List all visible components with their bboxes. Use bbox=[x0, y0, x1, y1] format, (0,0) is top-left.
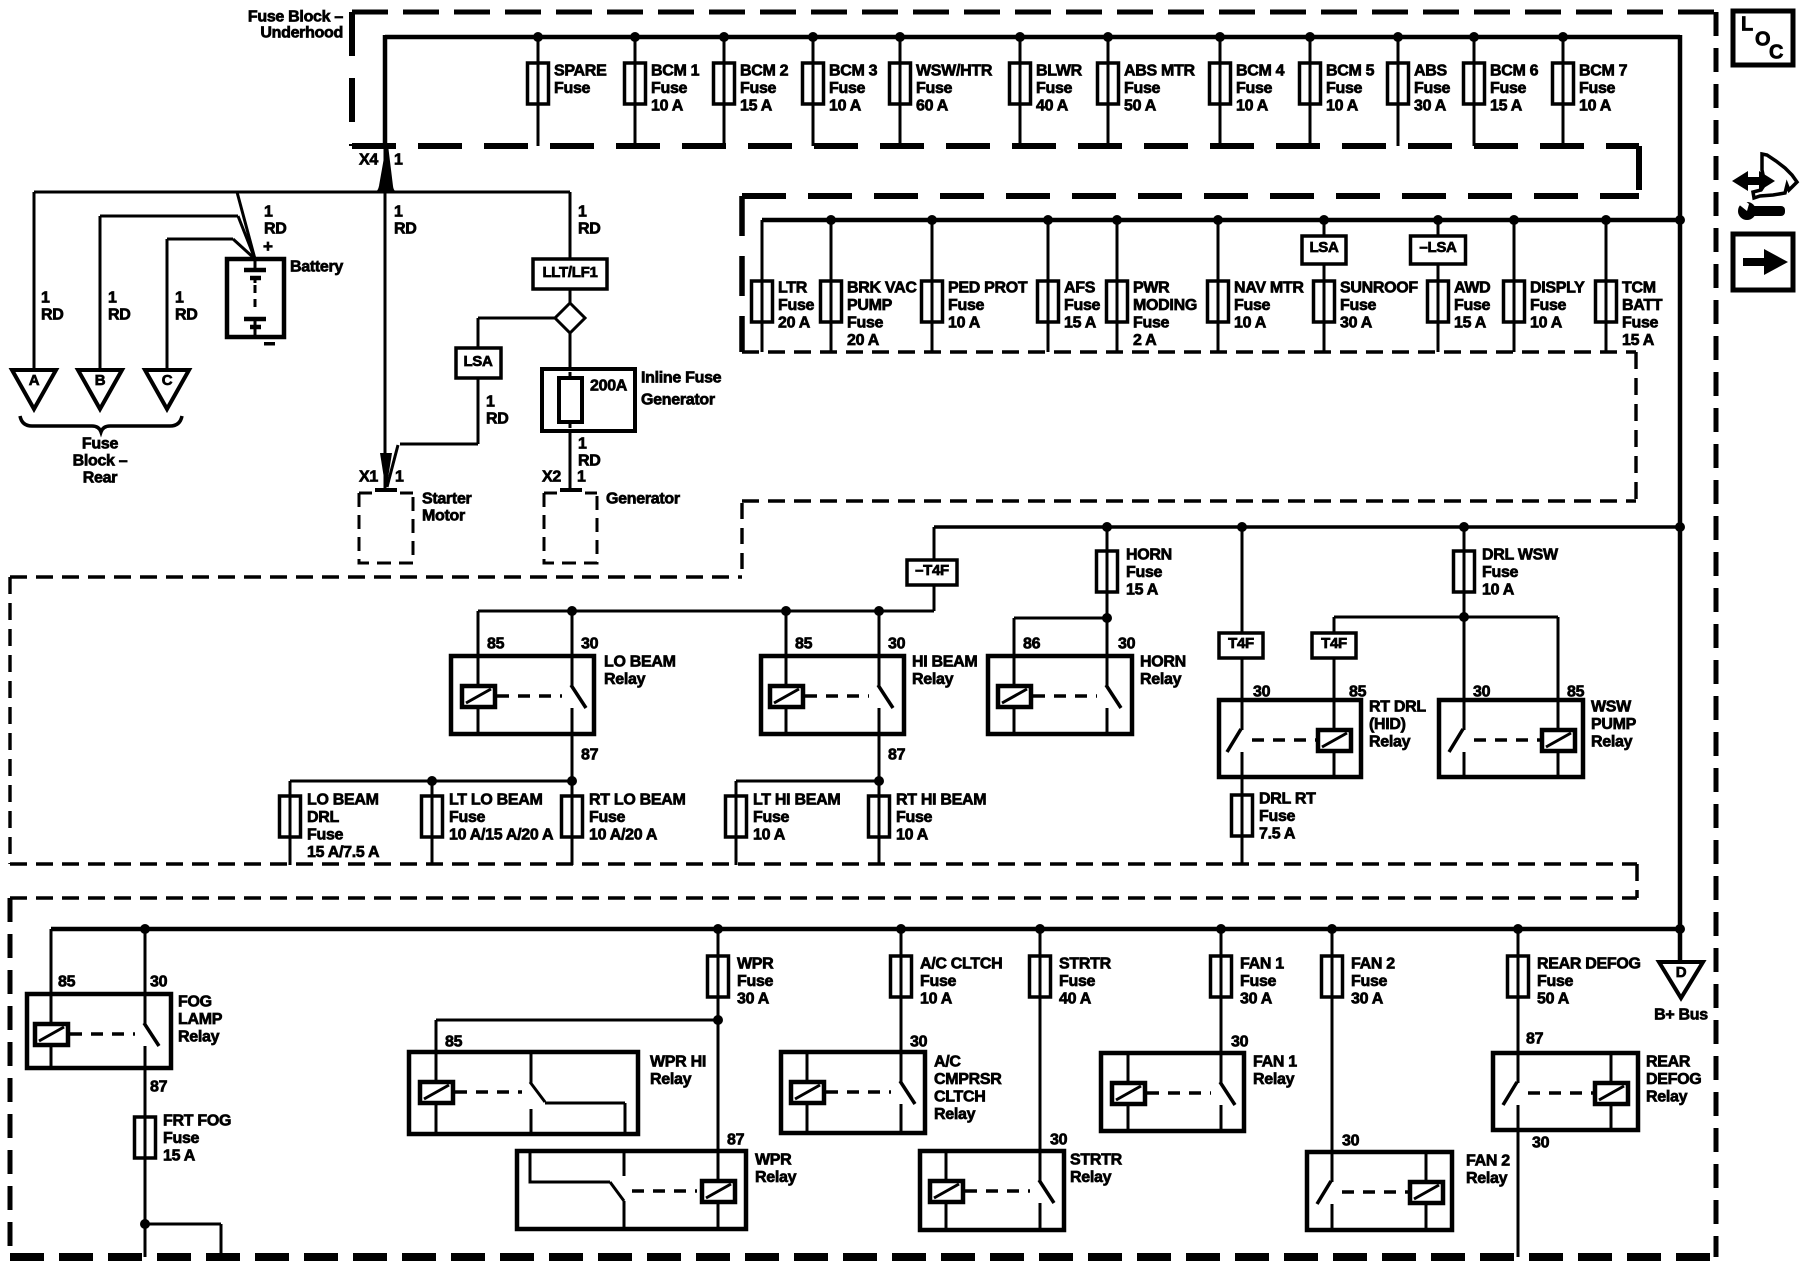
svg-text:L: L bbox=[1741, 13, 1753, 35]
fuse DRL RT bbox=[1232, 791, 1317, 866]
svg-text:DRL: DRL bbox=[307, 809, 340, 826]
svg-text:10 A/15 A/20 A: 10 A/15 A/20 A bbox=[449, 827, 554, 844]
relay A/C CMPRSR CLTCH bbox=[781, 1052, 1002, 1133]
svg-text:Fuse: Fuse bbox=[1414, 80, 1451, 97]
svg-text:15 A/7.5 A: 15 A/7.5 A bbox=[307, 844, 380, 861]
svg-text:B: B bbox=[95, 372, 106, 389]
svg-text:15 A: 15 A bbox=[1064, 315, 1097, 332]
svg-text:85: 85 bbox=[795, 636, 813, 653]
svg-text:ABS MTR: ABS MTR bbox=[1124, 63, 1196, 80]
svg-text:FRT FOG: FRT FOG bbox=[163, 1113, 231, 1130]
svg-text:87: 87 bbox=[150, 1079, 168, 1096]
wire drl/wsw branch horizontal bbox=[1334, 616, 1558, 619]
svg-text:Generator: Generator bbox=[606, 491, 680, 508]
svg-text:30 A: 30 A bbox=[1240, 991, 1273, 1008]
svg-text:Relay: Relay bbox=[178, 1029, 220, 1046]
svg-text:RT DRL: RT DRL bbox=[1369, 699, 1426, 716]
svg-text:X2: X2 bbox=[542, 469, 561, 486]
svg-text:RD: RD bbox=[264, 221, 287, 238]
off-page triangle B bbox=[78, 370, 122, 409]
svg-text:AWD: AWD bbox=[1454, 280, 1490, 297]
splice -T4F bbox=[907, 560, 957, 585]
svg-text:C: C bbox=[1769, 41, 1783, 63]
svg-text:BCM 3: BCM 3 bbox=[829, 63, 878, 80]
wire branch slant y192 to battery positive bbox=[237, 192, 255, 259]
relay RT DRL (HID) bbox=[1219, 699, 1426, 778]
svg-text:87: 87 bbox=[727, 1132, 745, 1149]
fuse ABS MTR (top row) bbox=[1098, 32, 1196, 146]
wire HI BEAM pin85 drop bbox=[785, 611, 788, 656]
fuse DRL WSW bbox=[1454, 522, 1560, 617]
svg-text:10 A: 10 A bbox=[1579, 98, 1612, 115]
wire horn relay pin86 branch bbox=[1014, 617, 1107, 620]
wire inline fuse to X2 bbox=[569, 431, 572, 489]
svg-text:Block –: Block – bbox=[73, 453, 128, 470]
svg-text:WPR HI: WPR HI bbox=[650, 1054, 706, 1071]
svg-text:Fuse: Fuse bbox=[554, 80, 591, 97]
fuse RT HI BEAM bbox=[869, 792, 987, 866]
svg-text:Relay: Relay bbox=[604, 671, 646, 688]
svg-text:Fuse: Fuse bbox=[651, 80, 688, 97]
wire RT DRL output to DRL RT fuse bbox=[1241, 777, 1244, 795]
wire B drop bbox=[99, 216, 102, 370]
wire WSW pump pin85 drop bbox=[1557, 617, 1560, 700]
svg-text:RD: RD bbox=[578, 221, 601, 238]
off-page triangle A bbox=[12, 370, 56, 409]
wire FOG LAMP pin30 drop bbox=[144, 929, 147, 994]
svg-text:AFS: AFS bbox=[1064, 280, 1096, 297]
svg-text:LT HI BEAM: LT HI BEAM bbox=[753, 792, 840, 809]
svg-text:+: + bbox=[263, 237, 273, 256]
fuse HORN bbox=[1097, 522, 1172, 618]
svg-text:DEFOG: DEFOG bbox=[1646, 1071, 1701, 1088]
wire LLT/LF1 feed drop bbox=[569, 192, 572, 259]
svg-text:10 A: 10 A bbox=[753, 827, 786, 844]
wire REAR DEFOG output down bbox=[1517, 1130, 1520, 1257]
wire bus1 right drop to bus2 (B+ trunk upper) bbox=[1678, 35, 1683, 220]
dashed connector between relay section and bottom section bbox=[1635, 864, 1639, 898]
svg-text:1: 1 bbox=[175, 290, 184, 307]
relay WPR HI bbox=[409, 1052, 706, 1134]
wire HI BEAM pin87 to hi beam fuses bbox=[878, 734, 881, 796]
svg-text:BCM 7: BCM 7 bbox=[1579, 63, 1628, 80]
svg-text:BCM 4: BCM 4 bbox=[1236, 63, 1285, 80]
fuse BCM 1 (top row) bbox=[625, 32, 700, 146]
wire WPR fuse to WPR relay bbox=[717, 997, 720, 1151]
wire diamond to LSA splice bbox=[478, 317, 556, 320]
svg-text:Fuse: Fuse bbox=[1537, 973, 1574, 990]
connector X2 bbox=[542, 469, 586, 491]
wire B+ trunk right side bbox=[1678, 220, 1683, 962]
fuse BLWR (top row) bbox=[1010, 32, 1083, 146]
fuse STRTR bbox=[1030, 924, 1112, 1008]
svg-text:WSW: WSW bbox=[1591, 699, 1632, 716]
svg-text:Generator: Generator bbox=[641, 392, 715, 409]
svg-text:Relay: Relay bbox=[755, 1169, 797, 1186]
svg-text:Fuse: Fuse bbox=[1133, 315, 1170, 332]
svg-text:A/C CLTCH: A/C CLTCH bbox=[920, 956, 1002, 973]
svg-text:Relay: Relay bbox=[650, 1071, 692, 1088]
fuse WSW/HTR (top row) bbox=[890, 32, 993, 146]
svg-text:REAR DEFOG: REAR DEFOG bbox=[1537, 956, 1641, 973]
wire FOG LAMP pin85 feed bbox=[50, 929, 53, 994]
svg-text:1: 1 bbox=[41, 290, 50, 307]
svg-text:10 A: 10 A bbox=[920, 991, 953, 1008]
second fuse box dashed bottom edge bbox=[742, 350, 1636, 353]
svg-text:DRL WSW: DRL WSW bbox=[1482, 547, 1559, 564]
fuse BCM 2 (top row) bbox=[714, 32, 789, 146]
svg-text:15 A: 15 A bbox=[163, 1148, 196, 1165]
fuse SPARE (top row) bbox=[528, 32, 608, 146]
svg-text:BATT: BATT bbox=[1622, 297, 1663, 314]
svg-text:B+ Bus: B+ Bus bbox=[1654, 1007, 1708, 1024]
second fuse box dashed left edge bbox=[739, 196, 745, 352]
svg-text:Relay: Relay bbox=[1253, 1071, 1295, 1088]
fuse ABS (top row) bbox=[1388, 32, 1451, 146]
svg-text:15 A: 15 A bbox=[1454, 315, 1487, 332]
svg-text:15 A: 15 A bbox=[740, 98, 773, 115]
junction dot bus3 at trunk bbox=[1675, 522, 1685, 532]
fuse TCM (second row) bbox=[1596, 215, 1663, 352]
svg-text:DRL RT: DRL RT bbox=[1259, 791, 1316, 808]
fuse REAR DEFOG bbox=[1508, 924, 1641, 1008]
svg-text:10 A: 10 A bbox=[651, 98, 684, 115]
wire FAN1 fuse to relay bbox=[1220, 997, 1223, 1053]
svg-text:LO BEAM: LO BEAM bbox=[307, 792, 379, 809]
svg-text:Battery: Battery bbox=[290, 259, 343, 276]
B+ Bus off-page triangle D bbox=[1654, 962, 1708, 1024]
svg-text:Fuse: Fuse bbox=[829, 80, 866, 97]
relay HORN bbox=[988, 654, 1186, 735]
svg-text:30: 30 bbox=[888, 636, 906, 653]
svg-text:BCM 1: BCM 1 bbox=[651, 63, 700, 80]
fuse BCM 6 (top row) bbox=[1464, 32, 1539, 146]
fuse block underhood dashed border top edge bbox=[352, 10, 1714, 15]
svg-text:1: 1 bbox=[578, 204, 587, 221]
wire -T4F down and left to beam relays bbox=[933, 585, 936, 611]
fuse PED PROT (second row) bbox=[922, 215, 1028, 352]
wire T4F2 to RT DRL pin85 bbox=[1333, 658, 1336, 700]
relay section dashed bottom edge bbox=[10, 862, 1637, 866]
svg-text:Fuse: Fuse bbox=[753, 809, 790, 826]
svg-text:Fuse: Fuse bbox=[1236, 80, 1273, 97]
relay HI BEAM bbox=[761, 654, 977, 735]
svg-text:20 A: 20 A bbox=[778, 315, 811, 332]
svg-text:SPARE: SPARE bbox=[554, 63, 607, 80]
page dashed border right edge bbox=[1714, 12, 1719, 1257]
svg-text:15 A: 15 A bbox=[1490, 98, 1523, 115]
splice LSA (generator branch) bbox=[456, 348, 501, 378]
fuse BCM 4 (top row) bbox=[1210, 32, 1285, 146]
wire STRTR fuse to relay bbox=[1039, 997, 1042, 1151]
wire LT LO BEAM fuse drop bbox=[431, 781, 434, 796]
wire HI BEAM pin30 drop bbox=[878, 611, 881, 656]
battery bbox=[227, 237, 343, 345]
wire T4F1 to RT DRL pin30 bbox=[1241, 658, 1244, 700]
svg-text:Fuse: Fuse bbox=[737, 973, 774, 990]
connector X1 with down arrow bbox=[359, 453, 404, 491]
svg-text:Fuse: Fuse bbox=[1064, 297, 1101, 314]
svg-text:10 A: 10 A bbox=[1530, 315, 1563, 332]
svg-text:FAN 2: FAN 2 bbox=[1466, 1153, 1510, 1170]
svg-text:10 A: 10 A bbox=[1234, 315, 1267, 332]
svg-text:30: 30 bbox=[150, 974, 168, 991]
svg-text:LSA: LSA bbox=[1309, 239, 1339, 256]
svg-text:PED PROT: PED PROT bbox=[948, 280, 1028, 297]
svg-text:–LSA: –LSA bbox=[1419, 239, 1457, 256]
svg-text:87: 87 bbox=[888, 747, 906, 764]
svg-text:10 A: 10 A bbox=[896, 827, 929, 844]
svg-text:30: 30 bbox=[1532, 1135, 1550, 1152]
svg-text:30 A: 30 A bbox=[1351, 991, 1384, 1008]
svg-text:RD: RD bbox=[175, 307, 198, 324]
svg-text:Fuse: Fuse bbox=[948, 297, 985, 314]
wire frt fog branch stub bbox=[145, 1223, 221, 1226]
svg-text:Fuse: Fuse bbox=[896, 809, 933, 826]
off-page triangle C bbox=[145, 370, 189, 409]
wire FRT FOG fuse output bbox=[144, 1158, 147, 1257]
svg-text:Motor: Motor bbox=[422, 508, 465, 525]
svg-text:87: 87 bbox=[581, 747, 599, 764]
svg-text:15 A: 15 A bbox=[1126, 582, 1159, 599]
svg-text:O: O bbox=[1755, 28, 1770, 50]
svg-text:PUMP: PUMP bbox=[847, 297, 893, 314]
wire WPR HI pin85 branch bbox=[436, 1019, 718, 1022]
svg-text:30: 30 bbox=[1342, 1133, 1360, 1150]
wire diamond to inline fuse bbox=[569, 333, 572, 371]
svg-text:ABS: ABS bbox=[1414, 63, 1448, 80]
svg-text:BCM 2: BCM 2 bbox=[740, 63, 789, 80]
svg-text:1: 1 bbox=[395, 469, 404, 486]
dashed left edge segment below second fuse box bbox=[740, 503, 743, 577]
svg-text:PWR: PWR bbox=[1133, 280, 1170, 297]
svg-text:LAMP: LAMP bbox=[178, 1011, 223, 1028]
svg-text:Relay: Relay bbox=[1369, 734, 1411, 751]
svg-text:1: 1 bbox=[394, 204, 403, 221]
svg-text:85: 85 bbox=[487, 636, 505, 653]
starter motor connector box bbox=[359, 490, 472, 563]
svg-text:LTR: LTR bbox=[778, 280, 808, 297]
svg-text:1: 1 bbox=[108, 290, 117, 307]
svg-text:HORN: HORN bbox=[1140, 654, 1186, 671]
junction diamond bbox=[555, 303, 585, 333]
bus B1 underhood fuse bus bbox=[385, 35, 1680, 40]
svg-text:Fuse: Fuse bbox=[1259, 808, 1296, 825]
fuse A/C CLTCH bbox=[891, 924, 1003, 1008]
relay WSW PUMP bbox=[1439, 699, 1637, 778]
fuse SUNROOF (second row) bbox=[1302, 215, 1418, 352]
wire LO BEAM pin30 drop bbox=[571, 611, 574, 656]
page dashed border left edge upper segment bbox=[8, 577, 11, 864]
svg-text:Fuse: Fuse bbox=[1530, 297, 1567, 314]
svg-text:Fuse Block –: Fuse Block – bbox=[248, 9, 344, 26]
icon LOC box bbox=[1733, 11, 1793, 65]
splice LLT/LF1 bbox=[533, 259, 607, 289]
fuse BRK VAC (second row) bbox=[821, 215, 918, 352]
svg-text:DISPLY: DISPLY bbox=[1530, 280, 1585, 297]
fuse block underhood dashed bottom edge bbox=[352, 143, 1639, 149]
svg-text:85: 85 bbox=[58, 974, 76, 991]
svg-text:87: 87 bbox=[1526, 1031, 1544, 1048]
wire horn relay pin30 drop bbox=[1106, 618, 1109, 656]
fuse FAN 2 bbox=[1322, 924, 1396, 1008]
svg-text:Fuse: Fuse bbox=[82, 436, 119, 453]
svg-text:LO BEAM: LO BEAM bbox=[604, 654, 676, 671]
svg-text:Relay: Relay bbox=[1466, 1170, 1508, 1187]
fuse WPR bbox=[708, 924, 775, 1008]
fuse RT LO BEAM bbox=[562, 792, 686, 866]
svg-text:RD: RD bbox=[486, 411, 509, 428]
svg-text:30: 30 bbox=[1231, 1034, 1249, 1051]
svg-text:WPR: WPR bbox=[737, 956, 774, 973]
wire FOG LAMP pin87 to FRT FOG fuse bbox=[144, 1068, 147, 1117]
svg-text:BCM 6: BCM 6 bbox=[1490, 63, 1539, 80]
svg-text:–T4F: –T4F bbox=[915, 562, 949, 579]
brace fuse block rear bbox=[20, 416, 182, 432]
svg-text:Fuse: Fuse bbox=[1059, 973, 1096, 990]
svg-text:TCM: TCM bbox=[1622, 280, 1656, 297]
splice T4F (RT DRL branch) bbox=[1219, 633, 1263, 658]
svg-text:D: D bbox=[1676, 964, 1687, 981]
svg-text:Fuse: Fuse bbox=[1579, 80, 1616, 97]
fuse AFS (second row) bbox=[1038, 215, 1101, 352]
svg-text:Fuse: Fuse bbox=[1482, 564, 1519, 581]
dashed connector between underhood box and second fuse box bbox=[1636, 146, 1642, 196]
icon forward arrow box bbox=[1733, 234, 1793, 290]
dashed partition line left of relay section bbox=[10, 575, 742, 578]
svg-text:30: 30 bbox=[1050, 1132, 1068, 1149]
svg-text:Fuse: Fuse bbox=[920, 973, 957, 990]
wire T4F1 drop from bus3 bbox=[1241, 527, 1244, 633]
fuse PWR (second row) bbox=[1107, 215, 1197, 352]
svg-text:86: 86 bbox=[1023, 636, 1041, 653]
svg-text:60 A: 60 A bbox=[916, 98, 949, 115]
svg-text:50 A: 50 A bbox=[1124, 98, 1157, 115]
svg-text:7.5 A: 7.5 A bbox=[1259, 826, 1296, 843]
bus B2 second fuse bus bbox=[762, 218, 1680, 223]
svg-text:SUNROOF: SUNROOF bbox=[1340, 280, 1418, 297]
wire LSA down to X1 branch bbox=[477, 378, 480, 444]
svg-text:Fuse: Fuse bbox=[740, 80, 777, 97]
fuse BCM 7 (top row) bbox=[1553, 32, 1628, 146]
junction dot bus2 right end bbox=[1675, 215, 1685, 225]
svg-text:STRTR: STRTR bbox=[1059, 956, 1112, 973]
svg-text:Relay: Relay bbox=[912, 671, 954, 688]
svg-text:Fuse: Fuse bbox=[916, 80, 953, 97]
svg-text:Fuse: Fuse bbox=[1454, 297, 1491, 314]
wire fuse block rear C branch bbox=[167, 238, 233, 241]
svg-text:40 A: 40 A bbox=[1059, 991, 1092, 1008]
svg-text:200A: 200A bbox=[590, 378, 628, 395]
fuse block underhood dashed left edge bbox=[349, 12, 355, 146]
svg-text:RD: RD bbox=[578, 453, 601, 470]
wire X4 trunk down to X1 bbox=[384, 146, 387, 489]
svg-text:1: 1 bbox=[578, 436, 587, 453]
svg-text:30 A: 30 A bbox=[1340, 315, 1373, 332]
svg-text:Fuse: Fuse bbox=[847, 315, 884, 332]
svg-text:Relay: Relay bbox=[1140, 671, 1182, 688]
wire REAR DEFOG fuse to relay bbox=[1517, 997, 1520, 1053]
dashed partition line under second fuse box bbox=[742, 499, 1636, 502]
svg-text:Underhood: Underhood bbox=[260, 25, 343, 42]
svg-text:T4F: T4F bbox=[1228, 635, 1254, 652]
svg-text:Fuse: Fuse bbox=[1240, 973, 1277, 990]
svg-text:10 A: 10 A bbox=[1482, 582, 1515, 599]
fuse BCM 3 (top row) bbox=[803, 32, 878, 146]
wire C drop bbox=[166, 239, 169, 370]
wire T4F2 drop bbox=[1333, 617, 1336, 633]
svg-text:REAR: REAR bbox=[1646, 1054, 1691, 1071]
svg-text:20 A: 20 A bbox=[847, 332, 880, 349]
relay FAN 2 bbox=[1307, 1152, 1510, 1230]
second fuse box dashed top edge bbox=[742, 193, 1639, 199]
svg-text:LT LO BEAM: LT LO BEAM bbox=[449, 792, 543, 809]
svg-text:HI BEAM: HI BEAM bbox=[912, 654, 977, 671]
connector X4 with up arrow bbox=[359, 149, 403, 192]
svg-text:C: C bbox=[162, 372, 173, 389]
svg-text:RD: RD bbox=[394, 221, 417, 238]
fuse LT HI BEAM bbox=[726, 792, 841, 866]
svg-text:A/C: A/C bbox=[934, 1054, 961, 1071]
svg-text:10 A: 10 A bbox=[1236, 98, 1269, 115]
wire fuse block rear B branch bbox=[100, 215, 238, 218]
bus B3 relay feed bus bbox=[934, 525, 1680, 529]
svg-text:Relay: Relay bbox=[1646, 1089, 1688, 1106]
relay WPR bbox=[517, 1151, 797, 1229]
svg-text:1: 1 bbox=[486, 394, 495, 411]
relay REAR DEFOG bbox=[1493, 1053, 1701, 1130]
svg-text:Fuse: Fuse bbox=[163, 1130, 200, 1147]
svg-text:10 A: 10 A bbox=[829, 98, 862, 115]
svg-text:X1: X1 bbox=[359, 469, 378, 486]
svg-text:RT HI BEAM: RT HI BEAM bbox=[896, 792, 986, 809]
wire bus1 left drop to X4 bbox=[383, 35, 388, 146]
wire LLT/LF1 to diamond bbox=[569, 289, 572, 304]
svg-text:X4: X4 bbox=[359, 152, 378, 169]
svg-text:Fuse: Fuse bbox=[1351, 973, 1388, 990]
svg-text:85: 85 bbox=[445, 1034, 463, 1051]
svg-text:1: 1 bbox=[577, 469, 586, 486]
wire FAN2 fuse to relay bbox=[1331, 997, 1334, 1152]
svg-text:HORN: HORN bbox=[1126, 547, 1172, 564]
svg-text:PUMP: PUMP bbox=[1591, 716, 1637, 733]
wire WSW pump pin30 drop bbox=[1463, 617, 1466, 700]
svg-text:FAN 2: FAN 2 bbox=[1351, 956, 1395, 973]
svg-text:WSW/HTR: WSW/HTR bbox=[916, 63, 993, 80]
svg-text:FAN 1: FAN 1 bbox=[1240, 956, 1284, 973]
wire A drop bbox=[33, 192, 36, 370]
inline fuse 200A generator bbox=[542, 369, 635, 431]
svg-text:Fuse: Fuse bbox=[1126, 564, 1163, 581]
svg-text:STRTR: STRTR bbox=[1070, 1152, 1123, 1169]
splice T4F (second) bbox=[1312, 633, 1356, 658]
wire A/C fuse to relay bbox=[900, 997, 903, 1052]
junction dot drl wsw branch bbox=[1459, 612, 1469, 622]
wire horizontal feed y192 battery to LLT branch bbox=[34, 191, 570, 194]
svg-text:Fuse: Fuse bbox=[1326, 80, 1363, 97]
svg-text:Inline Fuse: Inline Fuse bbox=[641, 370, 722, 387]
fuse NAV MTR (second row) bbox=[1208, 215, 1305, 352]
relay FOG LAMP bbox=[27, 994, 223, 1069]
svg-text:A: A bbox=[29, 372, 40, 389]
svg-text:10 A/20 A: 10 A/20 A bbox=[589, 827, 658, 844]
svg-text:Relay: Relay bbox=[1070, 1169, 1112, 1186]
svg-text:Relay: Relay bbox=[1591, 734, 1633, 751]
svg-text:Rear: Rear bbox=[83, 470, 117, 487]
fuse LT LO BEAM bbox=[422, 792, 555, 866]
svg-text:Fuse: Fuse bbox=[589, 809, 626, 826]
fuse DISPLY (second row) bbox=[1504, 215, 1586, 352]
